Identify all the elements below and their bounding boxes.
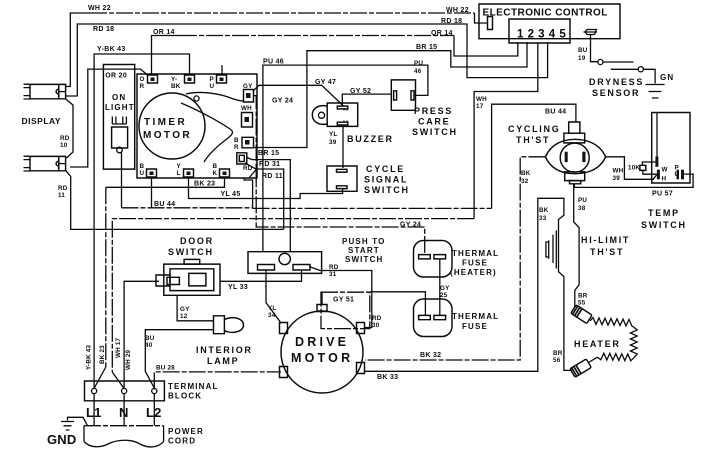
timer terminal OR <box>148 75 158 83</box>
resistor 10K <box>640 165 646 170</box>
svg-text:WH 17: WH 17 <box>115 337 122 358</box>
svg-text:WH: WH <box>476 96 487 103</box>
heater connector top <box>571 305 592 324</box>
svg-text:39: 39 <box>329 139 337 146</box>
svg-text:GY 24: GY 24 <box>400 222 421 229</box>
svg-text:Y-BK 43: Y-BK 43 <box>97 46 126 53</box>
svg-text:38: 38 <box>578 205 586 212</box>
temp switch H bar <box>657 170 660 180</box>
temp switch W bar <box>655 156 658 166</box>
svg-text:55: 55 <box>578 300 586 307</box>
ground wire GND <box>68 417 88 425</box>
wire WH 29 <box>124 281 159 388</box>
timer cam follower <box>194 96 199 101</box>
timer terminal BK <box>220 169 230 177</box>
svg-text:BU 28: BU 28 <box>156 365 175 372</box>
svg-text:WH 29: WH 29 <box>125 349 132 370</box>
svg-text:U: U <box>140 170 145 177</box>
interior lamp bulb <box>224 318 243 333</box>
dryness sensor wire 2 <box>611 68 638 70</box>
svg-text:GY 24: GY 24 <box>272 98 293 105</box>
door switch inner box <box>170 269 214 291</box>
push to start switch box <box>248 252 322 274</box>
svg-text:RD: RD <box>243 165 253 172</box>
wire YL 45 <box>189 177 343 199</box>
wire L1 down <box>93 394 95 426</box>
svg-text:RD 31: RD 31 <box>259 161 280 168</box>
svg-text:LAMP: LAMP <box>207 356 239 366</box>
svg-text:DRYNESS: DRYNESS <box>589 77 644 87</box>
ground symbol GND <box>61 422 74 431</box>
svg-text:BK 32: BK 32 <box>420 352 441 359</box>
wire OR 14 <box>152 36 181 75</box>
svg-text:Y: Y <box>177 163 182 170</box>
wire RD 11 timer <box>245 163 284 229</box>
door switch top tab <box>184 259 200 264</box>
GY 51 dash box <box>321 292 370 328</box>
wire RD 31 timer <box>247 158 290 252</box>
door switch outer box <box>164 264 220 295</box>
heater zigzag bottom <box>597 353 633 361</box>
wire BU 40 <box>145 330 213 388</box>
svg-text:RD 18: RD 18 <box>441 18 462 25</box>
svg-text:HI-LIMIT: HI-LIMIT <box>581 235 630 245</box>
svg-text:PU 57: PU 57 <box>652 191 673 198</box>
timer terminal BR <box>242 137 254 148</box>
on light box <box>103 65 134 170</box>
svg-text:SWITCH: SWITCH <box>168 247 214 257</box>
wire BR 15 <box>254 42 528 148</box>
svg-text:BK: BK <box>539 207 549 214</box>
wire BK 32 <box>365 157 545 360</box>
svg-text:RD 11: RD 11 <box>262 173 283 180</box>
svg-text:32: 32 <box>521 178 529 185</box>
svg-text:W: W <box>662 167 668 174</box>
svg-text:K: K <box>213 170 218 177</box>
wire GY 51 to fuse <box>370 292 425 316</box>
svg-text:SENSOR: SENSOR <box>592 88 640 98</box>
svg-text:PU: PU <box>578 197 587 204</box>
svg-text:(HEATER): (HEATER) <box>450 268 497 277</box>
svg-text:N: N <box>119 405 129 420</box>
svg-text:SWITCH: SWITCH <box>364 185 410 195</box>
cycle signal switch box <box>327 166 357 191</box>
svg-text:MOTOR: MOTOR <box>143 130 192 141</box>
buzzer hole <box>318 112 324 118</box>
svg-text:Y-BK 43: Y-BK 43 <box>86 345 93 370</box>
drive motor lower right tab <box>357 363 365 374</box>
svg-text:FUSE: FUSE <box>462 259 488 268</box>
buzzer body <box>327 103 358 126</box>
timer terminal YL <box>184 169 194 177</box>
svg-text:B: B <box>234 137 239 144</box>
svg-text:P: P <box>210 76 214 83</box>
wire GY 24 <box>253 96 425 255</box>
push to start switch bars <box>258 265 275 271</box>
svg-text:GY: GY <box>440 285 450 292</box>
wire heater bottom lead <box>589 357 598 362</box>
drive motor upper left tab <box>280 323 288 334</box>
svg-text:BK 33: BK 33 <box>377 374 398 381</box>
thermal fuse body <box>414 299 453 337</box>
svg-text:BU: BU <box>145 335 155 342</box>
wire RD 11 display <box>66 170 284 229</box>
buzzer lobe <box>312 106 327 125</box>
svg-text:DRIVE: DRIVE <box>295 335 349 349</box>
svg-text:10: 10 <box>60 142 68 149</box>
svg-text:U: U <box>210 83 215 90</box>
press care switch box <box>391 80 415 110</box>
heater zigzag right <box>630 327 637 358</box>
svg-text:B: B <box>213 163 218 170</box>
drive motor lower left tab <box>280 367 288 378</box>
svg-text:BUZZER: BUZZER <box>347 134 394 144</box>
timer terminal RD <box>237 153 247 164</box>
timer terminal PU <box>217 75 227 83</box>
drive motor circle <box>281 311 363 393</box>
svg-text:POWER: POWER <box>168 427 204 436</box>
timer box <box>137 74 257 178</box>
svg-text:31: 31 <box>329 271 337 278</box>
svg-text:WH 22: WH 22 <box>88 5 111 12</box>
wire Y-BK 43 <box>94 54 189 389</box>
svg-text:CARE: CARE <box>418 117 450 127</box>
terminal block screw L1 <box>92 388 97 393</box>
svg-text:BU: BU <box>578 47 588 54</box>
cycling thermostat top terminal <box>569 122 580 133</box>
svg-text:GY: GY <box>243 83 253 90</box>
svg-text:TEMP: TEMP <box>648 208 680 218</box>
dryness sensor contact 1 <box>598 59 603 64</box>
svg-text:B: B <box>140 163 145 170</box>
svg-text:FUSE: FUSE <box>462 322 488 331</box>
svg-text:MOTOR: MOTOR <box>291 351 353 365</box>
svg-text:PU: PU <box>414 60 423 67</box>
buzzer top terminal <box>337 106 348 109</box>
svg-text:SIGNAL: SIGNAL <box>364 175 408 185</box>
timer motor circle <box>139 93 205 159</box>
svg-text:BK 23: BK 23 <box>194 181 215 188</box>
wire WH 17 <box>474 43 538 219</box>
svg-text:SWITCH: SWITCH <box>641 220 687 230</box>
svg-text:DOOR: DOOR <box>180 236 214 246</box>
power cord wavy bottom <box>84 440 164 447</box>
wire GY 12 <box>177 296 213 321</box>
svg-text:H: H <box>662 176 667 183</box>
svg-text:YL 45: YL 45 <box>221 191 241 198</box>
svg-text:GN: GN <box>660 73 674 82</box>
svg-text:BR: BR <box>553 350 563 357</box>
wire OR 20 <box>70 69 148 167</box>
cycle signal switch bottom terminal <box>337 186 348 189</box>
svg-text:YL: YL <box>268 305 276 312</box>
svg-text:SWITCH: SWITCH <box>412 127 458 137</box>
terminal block screw N <box>122 388 127 393</box>
svg-text:BLOCK: BLOCK <box>168 392 202 401</box>
wire WH 22 <box>66 13 90 87</box>
svg-text:TERMINAL: TERMINAL <box>168 382 219 391</box>
svg-text:L: L <box>177 170 181 177</box>
svg-text:OR 20: OR 20 <box>105 72 127 79</box>
wire N down <box>123 394 125 426</box>
svg-text:GND: GND <box>47 432 77 447</box>
thermal fuse bars <box>419 315 431 319</box>
wire YL 34 <box>266 270 281 323</box>
svg-text:19: 19 <box>578 55 586 62</box>
svg-text:TH'ST: TH'ST <box>516 135 550 145</box>
svg-text:40: 40 <box>145 342 153 349</box>
thermal fuse heater body <box>414 241 453 278</box>
svg-text:YL: YL <box>329 131 337 138</box>
svg-text:WH: WH <box>241 105 252 112</box>
svg-text:39: 39 <box>613 175 621 182</box>
svg-text:WH: WH <box>613 168 624 175</box>
wire BU 19 <box>591 35 598 62</box>
wire on-light lamp stub <box>121 153 123 208</box>
svg-text:34: 34 <box>268 312 276 319</box>
svg-text:OR 14: OR 14 <box>431 30 453 37</box>
svg-text:R: R <box>234 144 239 151</box>
wire timer PU stub <box>221 65 223 74</box>
svg-text:GY 52: GY 52 <box>350 88 371 95</box>
buzzer bottom terminal <box>337 122 348 125</box>
wire to ground GN <box>643 69 655 83</box>
wire RD 30 <box>309 267 372 328</box>
svg-text:ELECTRONIC CONTROL: ELECTRONIC CONTROL <box>483 8 608 19</box>
svg-text:17: 17 <box>476 103 484 110</box>
temp switch PU bars <box>677 170 680 180</box>
svg-text:Y-: Y- <box>171 76 177 83</box>
cycling thermostat bottom terminal <box>565 172 585 181</box>
wire YL 33 <box>220 270 301 281</box>
svg-text:L1: L1 <box>86 405 102 420</box>
svg-text:O: O <box>140 76 145 83</box>
timer terminal WH <box>242 113 253 128</box>
svg-text:PU 46: PU 46 <box>263 59 284 66</box>
electronic control connector 1 2 3 4 5 <box>509 19 570 43</box>
timer terminal BU <box>147 169 157 177</box>
cycling thermostat contact bars <box>565 152 568 162</box>
timer terminal GY <box>244 90 254 103</box>
svg-text:46: 46 <box>414 68 422 75</box>
electronic control box <box>479 4 620 39</box>
svg-text:START: START <box>348 246 380 255</box>
svg-text:11: 11 <box>58 192 65 199</box>
wire buzzer to cycle signal switch YL 39 <box>342 126 344 168</box>
wire RD 18 <box>66 24 548 96</box>
terminal into electronic control <box>488 17 493 30</box>
svg-text:1 2 3 4 5: 1 2 3 4 5 <box>517 29 566 41</box>
svg-text:CYCLING: CYCLING <box>508 124 560 134</box>
svg-text:56: 56 <box>553 357 561 364</box>
wire GY 47 <box>253 85 344 106</box>
svg-text:ON: ON <box>112 93 126 102</box>
svg-text:RD: RD <box>58 185 68 192</box>
push to start switch button <box>279 253 290 264</box>
svg-text:CORD: CORD <box>168 437 196 446</box>
temp switch box <box>652 113 690 184</box>
svg-text:RD: RD <box>329 264 339 271</box>
on light lamp <box>112 117 128 153</box>
ground symbol GN <box>646 85 665 99</box>
drive motor stub to GY51 box <box>321 292 323 304</box>
svg-text:10K: 10K <box>628 165 640 172</box>
svg-text:RD: RD <box>60 135 70 142</box>
svg-text:BR 15: BR 15 <box>416 44 437 51</box>
svg-text:GY: GY <box>180 306 190 313</box>
svg-text:L2: L2 <box>146 405 162 420</box>
wire PU 46 <box>263 65 428 252</box>
svg-text:BR: BR <box>578 293 588 300</box>
svg-text:BK: BK <box>171 83 181 90</box>
drive motor upper right tab <box>357 323 365 334</box>
svg-text:33: 33 <box>539 215 547 222</box>
svg-text:CYCLE: CYCLE <box>366 164 405 174</box>
display connector 2 <box>24 156 66 171</box>
svg-text:12: 12 <box>180 313 188 320</box>
svg-text:SWITCH: SWITCH <box>345 255 383 264</box>
svg-text:R: R <box>140 83 145 90</box>
svg-text:U: U <box>675 171 680 178</box>
svg-text:TH'ST: TH'ST <box>590 247 624 257</box>
svg-text:INTERIOR: INTERIOR <box>196 345 253 355</box>
terminal block box <box>85 381 165 401</box>
wire RD 10 <box>66 99 73 158</box>
svg-text:BK 23: BK 23 <box>99 345 106 364</box>
press care switch contact bars <box>394 91 397 100</box>
temp switch W lead <box>656 113 658 157</box>
svg-text:PUSH TO: PUSH TO <box>342 237 385 246</box>
svg-text:LIGHT: LIGHT <box>105 103 135 112</box>
svg-text:YL 33: YL 33 <box>228 284 248 291</box>
hi-limit thermostat plates <box>546 230 556 268</box>
spade terminal BU 19 <box>584 30 598 35</box>
svg-text:BK: BK <box>521 170 531 177</box>
wire GY 25 <box>439 260 441 316</box>
thermal fuse heater bars <box>419 255 431 259</box>
dryness sensor contact 2 <box>638 67 643 72</box>
terminal block screw L2 <box>152 388 157 393</box>
cycle signal switch top terminal <box>337 169 348 172</box>
svg-text:BR 15: BR 15 <box>258 150 279 157</box>
svg-text:THERMAL: THERMAL <box>452 312 499 321</box>
wire BU 44 <box>151 177 153 208</box>
dryness sensor wire 1 <box>603 61 634 63</box>
svg-text:OR 14: OR 14 <box>153 29 175 36</box>
display connector 1 <box>24 84 66 99</box>
door switch left connector <box>156 275 170 286</box>
svg-text:BU 44: BU 44 <box>545 109 566 116</box>
heater connector bottom <box>570 359 591 377</box>
heater zigzag top <box>590 318 634 328</box>
power cord box <box>84 425 164 427</box>
svg-text:30: 30 <box>372 322 380 329</box>
timer terminal Y-BK <box>185 75 195 83</box>
timer cam <box>186 92 244 101</box>
svg-text:WH 22: WH 22 <box>446 7 469 14</box>
svg-text:DISPLAY: DISPLAY <box>22 116 62 126</box>
wire WH 38 <box>606 157 657 180</box>
wire L2 down <box>153 394 155 426</box>
wire BU 28 <box>154 372 281 390</box>
wire BK 23 <box>106 177 225 187</box>
wire GY 52 <box>342 94 391 106</box>
cycling thermostat lens <box>545 139 605 173</box>
wire PU 57 <box>574 174 693 187</box>
interior lamp base <box>214 316 225 334</box>
drive motor top tab <box>317 305 327 312</box>
svg-text:RD: RD <box>372 315 382 322</box>
svg-text:THERMAL: THERMAL <box>452 249 499 258</box>
svg-text:25: 25 <box>440 292 448 299</box>
svg-text:HEATER: HEATER <box>574 339 621 349</box>
wire BK 33 <box>365 198 572 371</box>
svg-text:PRESS: PRESS <box>414 106 453 116</box>
svg-text:GY 47: GY 47 <box>315 79 336 86</box>
svg-text:RD 18: RD 18 <box>93 26 114 33</box>
svg-text:TIMER: TIMER <box>144 117 187 128</box>
cycling thermostat circle <box>560 143 589 172</box>
svg-text:BU 44: BU 44 <box>154 201 175 208</box>
door switch inner small box <box>189 273 206 286</box>
svg-text:GY 51: GY 51 <box>333 297 354 304</box>
wire PU 38 <box>574 184 579 308</box>
